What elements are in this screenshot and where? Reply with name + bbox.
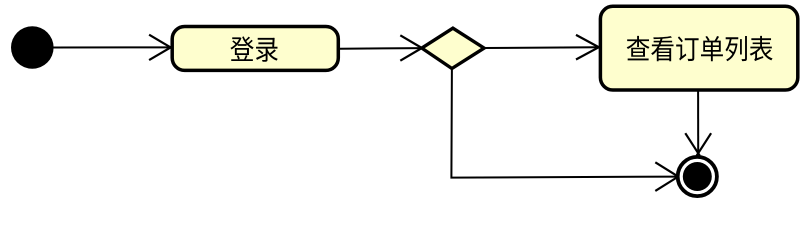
final node inner dot (683, 162, 712, 191)
wire: decision to 查看订单列表 (484, 46, 598, 49)
arrowhead into 查看订单列表 (576, 35, 601, 60)
activity 查看订单列表 (600, 6, 797, 90)
final node outer ring (678, 157, 717, 196)
wire: 登录 to decision (340, 47, 421, 50)
initial node (start) (11, 26, 54, 69)
arrowhead into final (from box) (685, 133, 711, 156)
arrowhead into 登录 (149, 35, 173, 60)
activity 登录 (172, 27, 338, 71)
wire: start to 登录 (54, 46, 170, 48)
decision diamond (422, 28, 484, 68)
wire: 查看订单列表 down to final (697, 90, 699, 152)
arrowhead into final (from decision) (655, 162, 681, 191)
label 查看订单列表 (627, 36, 773, 61)
label 登录 (230, 36, 277, 61)
wire: decision down and right to final (451, 69, 677, 178)
arrowhead into decision (400, 35, 424, 60)
